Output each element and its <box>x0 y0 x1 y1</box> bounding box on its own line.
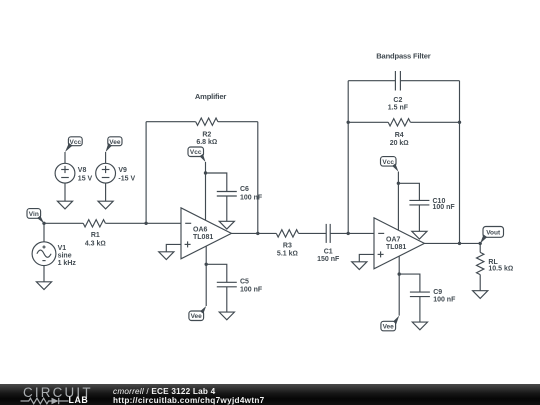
voltage source V1 <box>32 242 76 267</box>
wire OA7 V- pin down <box>398 256 400 316</box>
svg-text:C1: C1 <box>324 248 333 255</box>
ground (V1) <box>36 282 51 290</box>
wire C6 to ground <box>226 196 228 221</box>
svg-text:sine: sine <box>58 253 72 260</box>
svg-text:-15 V: -15 V <box>118 175 135 182</box>
node junction bandpass left <box>347 232 350 235</box>
wire to C5 <box>206 264 227 282</box>
ground (C10) <box>412 231 427 239</box>
svg-text:1.5 nF: 1.5 nF <box>388 105 409 112</box>
node Vcc label (OA7) <box>381 157 399 172</box>
svg-text:15 V: 15 V <box>78 175 93 182</box>
svg-text:V1: V1 <box>58 245 67 252</box>
svg-text:5.1 kΩ: 5.1 kΩ <box>277 250 298 257</box>
node Vin junction <box>42 222 45 225</box>
wire C2 left <box>348 80 395 82</box>
svg-text:100 nF: 100 nF <box>433 204 456 211</box>
svg-text:R3: R3 <box>283 243 292 250</box>
voltage source V9 <box>96 163 136 183</box>
svg-text:20 kΩ: 20 kΩ <box>390 140 409 147</box>
ground (V8) <box>57 201 72 209</box>
wire R1 to OA6 inverting input <box>105 222 181 224</box>
node Vcc label (OA6) <box>188 147 206 162</box>
node Vcc label (V8) <box>65 137 82 152</box>
svg-text:R4: R4 <box>395 132 404 139</box>
voltage source V8 <box>55 163 92 183</box>
wire OA6 non-inverting input to ground <box>166 244 181 251</box>
CircuitLab logo <box>23 386 93 399</box>
ground (C6) <box>219 221 234 229</box>
node Vin label <box>27 209 44 224</box>
svg-text:100 nF: 100 nF <box>433 296 456 303</box>
svg-text:Vin: Vin <box>29 211 39 218</box>
svg-text:V9: V9 <box>118 167 127 174</box>
wire RL to ground <box>479 275 481 291</box>
ground (C9) <box>412 322 427 330</box>
wire R2 top right <box>218 121 258 123</box>
wire bandpass left vertical <box>347 81 349 234</box>
svg-text:Vee: Vee <box>191 313 203 320</box>
svg-text:Amplifier: Amplifier <box>195 92 227 101</box>
ground (OA6 +) <box>159 252 174 260</box>
svg-text:Bandpass Filter: Bandpass Filter <box>376 51 430 60</box>
wire C2 right <box>400 80 459 82</box>
svg-text:R1: R1 <box>91 232 100 239</box>
node junction R4 right <box>458 121 461 124</box>
footer bar <box>0 384 540 405</box>
node junction bandpass right/output <box>458 242 461 245</box>
svg-text:TL081: TL081 <box>386 244 406 251</box>
node Vee label (OA6) <box>189 306 206 321</box>
wire OA7 non-inverting input to ground <box>359 254 374 261</box>
wire R4 right <box>410 121 459 123</box>
wire Vout to RL <box>479 243 481 252</box>
svg-text:1 kHz: 1 kHz <box>58 260 77 267</box>
svg-text:Vee: Vee <box>383 324 395 331</box>
capacitor C5 <box>217 279 263 294</box>
svg-text:V8: V8 <box>78 167 87 174</box>
svg-text:Vcc: Vcc <box>382 159 394 166</box>
svg-text:100 nF: 100 nF <box>240 195 263 202</box>
resistor R3 <box>276 230 298 258</box>
svg-text:Vout: Vout <box>486 230 501 237</box>
svg-text:R2: R2 <box>202 131 211 138</box>
wire R4 left <box>348 121 388 123</box>
node junction Vee/C9 <box>398 272 401 275</box>
svg-text:Vcc: Vcc <box>190 149 202 156</box>
wire R2 top left <box>146 121 196 123</box>
node junction feedback/output <box>256 232 259 235</box>
wire bandpass right vertical <box>459 81 461 244</box>
op-amp OA7 <box>374 218 424 269</box>
node junction Vcc/C10 <box>397 182 400 185</box>
wire V1 to ground <box>43 266 45 282</box>
svg-text:150 nF: 150 nF <box>317 256 340 263</box>
capacitor C10 <box>409 198 455 211</box>
footer credit text <box>113 387 265 405</box>
svg-text:Vcc: Vcc <box>70 139 82 146</box>
node junction R4 left <box>347 121 350 124</box>
wire to C6 <box>206 173 227 192</box>
node Vout label <box>480 227 503 244</box>
resistor R2 <box>196 118 218 146</box>
wire C5 to ground <box>226 287 228 312</box>
node junction Vee/C5 <box>205 263 208 266</box>
wire OA7 output <box>424 242 480 244</box>
resistor R1 <box>83 220 106 248</box>
op-amp OA6 <box>181 208 231 259</box>
svg-text:C5: C5 <box>240 279 249 286</box>
wire Vcc to OA7 V+ pin <box>397 172 399 231</box>
wire to C10 <box>398 183 419 200</box>
wire C1 to OA7 inverting input <box>330 232 374 234</box>
wire Vcc to OA6 V+ pin <box>205 162 207 220</box>
wire Vin to V1 <box>43 223 45 242</box>
capacitor C6 <box>217 186 263 202</box>
svg-text:C2: C2 <box>393 97 402 104</box>
svg-text:OA6: OA6 <box>193 226 208 233</box>
wire to C9 <box>399 274 420 292</box>
ground (V9) <box>98 201 113 209</box>
wire OA6 V- pin down <box>205 246 207 306</box>
wire R2 left vertical <box>145 122 147 224</box>
svg-text:C6: C6 <box>240 186 249 193</box>
wire C9 to ground <box>419 297 421 323</box>
svg-text:Vee: Vee <box>109 139 121 146</box>
wire R3 to C1 <box>299 232 327 234</box>
wire V8 to ground <box>64 183 66 201</box>
wire C10 to ground <box>418 205 420 231</box>
capacitor C9 <box>410 289 456 303</box>
svg-text:6.8 kΩ: 6.8 kΩ <box>196 139 217 146</box>
node junction Vcc/C6 <box>204 171 207 174</box>
svg-text:OA7: OA7 <box>386 236 401 243</box>
ground (RL) <box>473 291 488 299</box>
capacitor C2 <box>388 71 409 112</box>
svg-text:TL081: TL081 <box>193 234 213 241</box>
svg-text:C9: C9 <box>433 289 442 296</box>
svg-text:100 nF: 100 nF <box>240 286 263 293</box>
node Vee label (V9) <box>106 137 122 152</box>
wire R2 right vertical (feedback) <box>257 122 259 234</box>
wire Vee to V9 <box>105 152 107 163</box>
wire V9 to ground <box>105 183 107 201</box>
wire OA6 output <box>231 232 276 234</box>
wire Vin to R1 <box>44 222 83 224</box>
ground (OA7 +) <box>352 262 367 270</box>
svg-text:10.5 kΩ: 10.5 kΩ <box>488 265 513 272</box>
resistor R4 <box>388 119 410 147</box>
node junction Vout/RL <box>479 242 482 245</box>
ground (C5) <box>219 312 234 320</box>
capacitor C1 <box>317 224 340 263</box>
node junction R1/R2 <box>144 222 147 225</box>
wire Vcc to V8 <box>64 152 66 163</box>
svg-text:4.3 kΩ: 4.3 kΩ <box>85 241 106 248</box>
node Vee label (OA7) <box>381 316 399 331</box>
resistor RL <box>477 252 514 274</box>
